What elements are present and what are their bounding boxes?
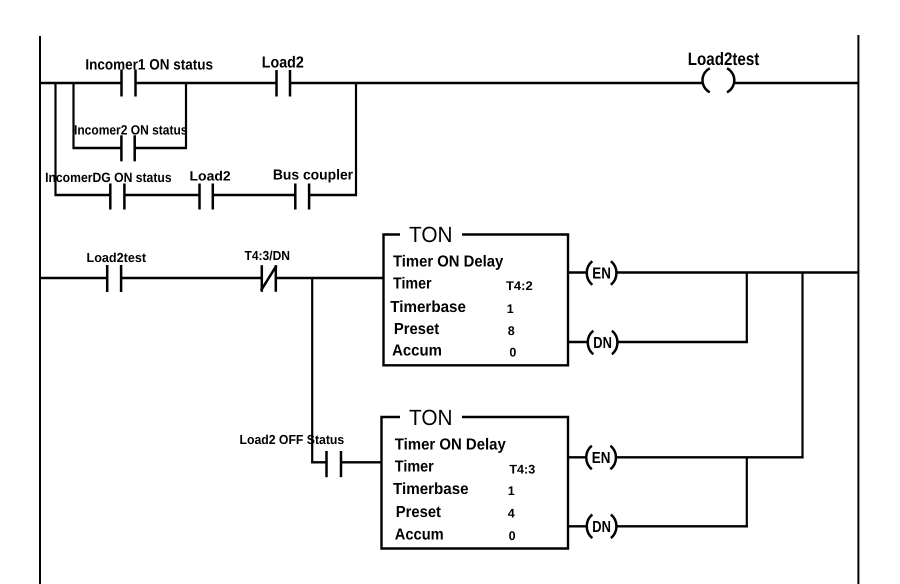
- svg-text:Timer ON Delay: Timer ON Delay: [395, 437, 506, 454]
- svg-text:1: 1: [508, 484, 515, 498]
- right power rail: [857, 35, 859, 584]
- contact Load2test (rung 2): [107, 265, 121, 292]
- svg-text:0: 0: [509, 345, 516, 359]
- TON1 EN output wire: [568, 271, 859, 273]
- branch Incomer2: right riser wire: [185, 82, 187, 149]
- rung 1 wire segments: [39, 82, 859, 84]
- svg-text:Load2 OFF Status: Load2 OFF Status: [240, 432, 345, 447]
- svg-text:Preset: Preset: [396, 504, 442, 521]
- branch IncomerDG: left drop wire: [54, 82, 56, 196]
- branch IncomerDG horizontal wire: [55, 194, 358, 196]
- svg-text:T4:3/DN: T4:3/DN: [245, 248, 291, 263]
- wire riser DN2 to EN2 line: [746, 457, 748, 527]
- rung 2 wire segments: [39, 277, 383, 279]
- svg-text:T4:2: T4:2: [506, 279, 533, 293]
- TON2 EN output wire: [568, 456, 804, 458]
- svg-text:Timer: Timer: [395, 458, 434, 475]
- contact Bus coupler: [295, 184, 309, 210]
- svg-text:4: 4: [508, 507, 515, 521]
- svg-text:Incomer2 ON status: Incomer2 ON status: [74, 122, 188, 137]
- contact Load2 OFF Status: [327, 451, 342, 477]
- contact IncomerDG ON status: [110, 184, 124, 210]
- contact T4:3/DN (normally closed): [261, 265, 277, 292]
- contact Load2 (rung 1): [277, 70, 291, 97]
- svg-text:Bus coupler: Bus coupler: [273, 168, 354, 184]
- contact Incomer2 ON status: [121, 135, 134, 161]
- svg-text:8: 8: [508, 324, 515, 338]
- svg-text:IncomerDG ON status: IncomerDG ON status: [45, 170, 172, 185]
- TON1 DN coil: [588, 331, 618, 355]
- left power rail: [39, 36, 41, 584]
- svg-text:Timerbase: Timerbase: [390, 299, 466, 316]
- contact Load2 (DG branch): [200, 184, 213, 210]
- svg-text:EN: EN: [592, 450, 611, 467]
- svg-text:Timer ON Delay: Timer ON Delay: [393, 254, 503, 271]
- svg-text:DN: DN: [593, 335, 612, 352]
- svg-text:Load2: Load2: [262, 55, 304, 72]
- TON2 DN output wire: [568, 525, 748, 527]
- svg-text:Load2: Load2: [190, 168, 231, 183]
- svg-text:0: 0: [509, 529, 516, 543]
- svg-text:Preset: Preset: [394, 321, 440, 338]
- svg-text:T4:3: T4:3: [509, 462, 535, 476]
- TON box 1: [384, 235, 569, 366]
- svg-text:Load2test: Load2test: [688, 49, 760, 69]
- rung 3 wire segments: [311, 461, 382, 463]
- wire drop from rung 2 to rung 3: [311, 277, 313, 463]
- TON1 DN output wire: [568, 341, 748, 343]
- branch Incomer2 horizontal wire: [73, 147, 188, 149]
- svg-text:Accum: Accum: [392, 342, 442, 359]
- svg-text:Load2test: Load2test: [87, 250, 147, 265]
- TON2 EN coil: [586, 446, 616, 470]
- svg-text:DN: DN: [592, 519, 611, 536]
- svg-text:TON: TON: [409, 405, 453, 430]
- svg-text:TON: TON: [409, 222, 453, 247]
- svg-text:1: 1: [507, 302, 514, 316]
- TON1 EN coil: [587, 261, 617, 285]
- svg-text:EN: EN: [592, 266, 611, 283]
- svg-text:Incomer1 ON status: Incomer1 ON status: [85, 57, 213, 74]
- coil Load2test: [702, 68, 734, 92]
- svg-text:Accum: Accum: [395, 526, 444, 543]
- branch IncomerDG: right riser wire: [355, 82, 357, 196]
- TON2 DN coil: [587, 515, 617, 539]
- svg-text:Timerbase: Timerbase: [393, 481, 469, 498]
- wire riser DN1 to EN1 line: [746, 273, 748, 344]
- wire riser EN2 line to EN1 line: [801, 273, 803, 459]
- TON box 2: [382, 417, 569, 549]
- contact Incomer1 ON status: [122, 70, 136, 97]
- branch Incomer2: left drop wire: [72, 82, 74, 149]
- svg-text:Timer: Timer: [393, 276, 432, 293]
